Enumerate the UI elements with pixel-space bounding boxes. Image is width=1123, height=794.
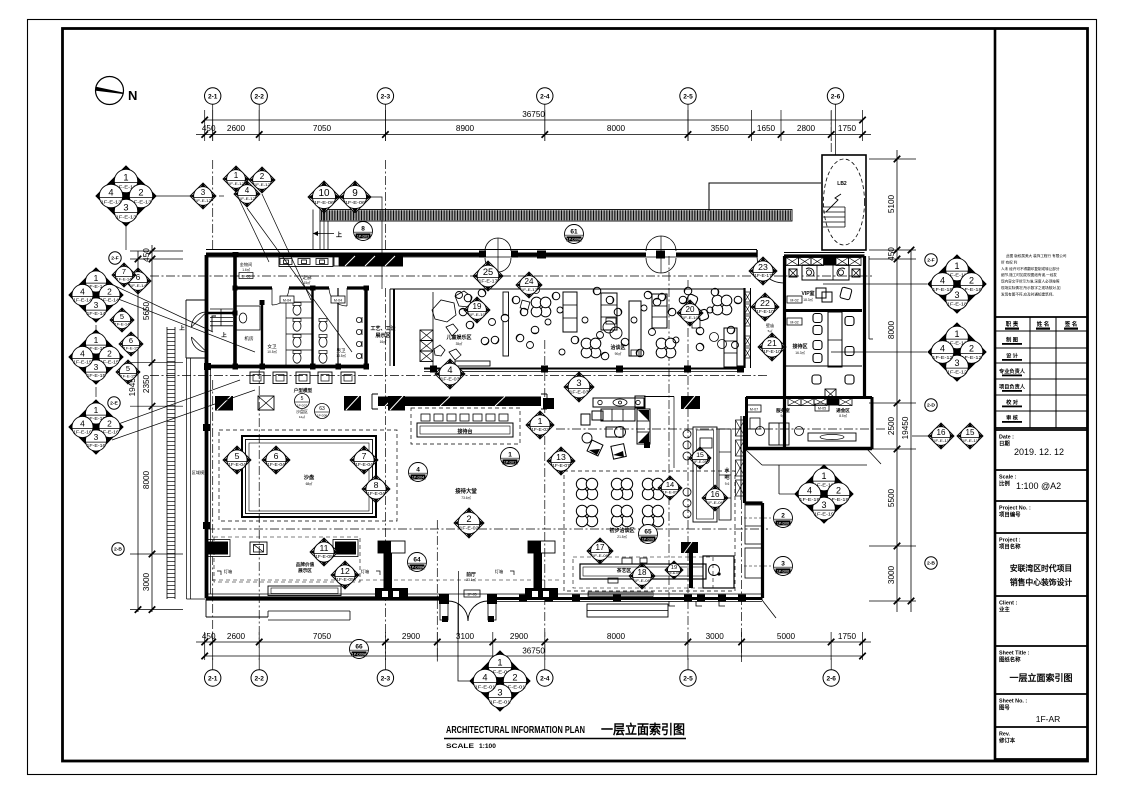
cloak counter dark <box>334 256 403 267</box>
svg-text:19: 19 <box>671 565 677 571</box>
svg-text:1F-E-13: 1F-E-13 <box>100 199 121 205</box>
svg-text:24: 24 <box>525 277 534 286</box>
toilet stalls left <box>286 301 312 303</box>
elevation marker 2 at 262,180 <box>249 167 275 193</box>
circle tag 8 <box>354 222 373 241</box>
svg-text:吧: 吧 <box>724 474 729 481</box>
right wing walls <box>746 253 872 450</box>
elevation marker 3 at 579,387 <box>564 372 594 402</box>
svg-text:5100: 5100 <box>887 194 896 213</box>
svg-text:金物间: 金物间 <box>240 261 253 268</box>
svg-text:Client :: Client : <box>999 601 1017 607</box>
svg-text:安联湾区时代项目: 安联湾区时代项目 <box>1010 563 1072 573</box>
svg-text:16.3㎡: 16.3㎡ <box>795 350 805 355</box>
elevation marker 8 at 376,489 <box>362 475 390 503</box>
svg-text:展示区: 展示区 <box>298 567 312 574</box>
svg-text:1F-E-14: 1F-E-14 <box>130 283 147 288</box>
svg-text:灯箱: 灯箱 <box>224 568 232 575</box>
svg-text:36750: 36750 <box>522 647 545 656</box>
wing x-band <box>786 258 861 266</box>
entrance pier left <box>378 541 405 553</box>
svg-text:前厅: 前厅 <box>466 571 476 578</box>
elevation marker 11 at 324,552 <box>310 538 338 566</box>
svg-text:2-4: 2-4 <box>540 675 550 682</box>
svg-text:1F-E-16: 1F-E-16 <box>87 443 107 448</box>
svg-text:1: 1 <box>123 173 128 183</box>
svg-text:此图 版权属美大 装饰工程行 有限公司: 此图 版权属美大 装饰工程行 有限公司 <box>1006 253 1067 258</box>
left grid bubbles <box>108 252 124 555</box>
svg-text:制 图: 制 图 <box>1006 336 1018 344</box>
elevation marker 23 at 763,271 <box>749 257 777 285</box>
leaders bottom <box>458 604 470 681</box>
svg-text:1F-E-02: 1F-E-02 <box>531 427 549 432</box>
svg-text:品牌价值: 品牌价值 <box>296 561 315 568</box>
svg-text:发现有图不符,应及时通知建筑师。: 发现有图不符,应及时通知建筑师。 <box>1001 291 1056 296</box>
toilet doors <box>272 288 347 306</box>
svg-text:现场实际情况 所示数字之现场核对,如: 现场实际情况 所示数字之现场核对,如 <box>1001 285 1061 290</box>
svg-text:4: 4 <box>416 466 420 473</box>
svg-text:1F-E-02: 1F-E-02 <box>459 526 479 531</box>
svg-text:VIP室: VIP室 <box>801 290 814 297</box>
svg-text:现内容文字所示为准,深度人必须按照: 现内容文字所示为准,深度人必须按照 <box>1001 279 1060 284</box>
svg-text:1: 1 <box>955 329 960 339</box>
svg-text:1:100: 1:100 <box>479 743 496 750</box>
svg-text:接待大堂: 接待大堂 <box>455 487 477 495</box>
shachanqu label <box>295 394 310 409</box>
svg-text:65: 65 <box>644 528 652 535</box>
svg-text:初步洽谈区: 初步洽谈区 <box>609 527 634 534</box>
svg-text:5: 5 <box>120 312 124 321</box>
svg-text:3: 3 <box>123 203 128 213</box>
svg-text:8000: 8000 <box>887 320 896 339</box>
svg-text:1P-D08: 1P-D08 <box>317 414 328 418</box>
svg-text:3550: 3550 <box>711 124 730 133</box>
svg-text:1P-D09A: 1P-D09A <box>567 238 582 242</box>
svg-text:1F-E-16: 1F-E-16 <box>73 430 93 435</box>
elevation marker 1 at 236,179 <box>223 166 249 192</box>
svg-text:4: 4 <box>940 276 945 286</box>
model display bar <box>372 394 554 409</box>
svg-text:2: 2 <box>107 287 112 297</box>
interior stair <box>210 309 233 331</box>
cluster bottom <box>470 651 530 711</box>
svg-text:1F-E-12: 1F-E-12 <box>239 196 255 201</box>
elevation marker 17 at 600,551 <box>587 538 613 564</box>
lounge step edge <box>424 368 744 370</box>
lounge top boundary <box>390 288 744 290</box>
elevation marker 21 at 772,347 <box>758 333 786 361</box>
tea bar <box>580 542 734 597</box>
svg-text:4: 4 <box>447 365 452 375</box>
svg-text:灯箱: 灯箱 <box>361 568 369 575</box>
svg-text:13.5㎡: 13.5㎡ <box>336 353 346 358</box>
svg-text:2500: 2500 <box>887 416 896 435</box>
svg-text:户型模型: 户型模型 <box>293 387 313 394</box>
svg-text:2-3: 2-3 <box>381 93 391 100</box>
svg-text:73.6㎡: 73.6㎡ <box>461 495 471 500</box>
cluster left-3 <box>69 400 123 454</box>
elevation marker 6 at 276,460 <box>262 446 290 474</box>
svg-text:3: 3 <box>201 188 206 197</box>
svg-text:1P-D08: 1P-D08 <box>642 538 654 542</box>
svg-text:2-2: 2-2 <box>254 675 264 682</box>
left outside wall lines <box>186 358 188 599</box>
svg-text:15: 15 <box>696 452 704 459</box>
svg-text:1F-E-09: 1F-E-09 <box>707 500 723 505</box>
svg-text:8000: 8000 <box>142 470 151 489</box>
svg-text:4: 4 <box>108 188 113 198</box>
svg-text:5650: 5650 <box>142 301 151 320</box>
svg-text:450: 450 <box>202 124 216 133</box>
oval stair <box>822 155 866 250</box>
elevation marker 24 at 529,285 <box>516 272 542 298</box>
wc small room <box>236 306 260 330</box>
svg-text:11: 11 <box>319 543 328 553</box>
svg-text:10: 10 <box>318 188 330 199</box>
svg-text:走廊: 走廊 <box>302 274 312 281</box>
elevation marker 5 at 237,460 <box>223 446 251 474</box>
svg-text:5: 5 <box>301 396 304 402</box>
svg-text:2: 2 <box>260 172 265 181</box>
svg-text:2: 2 <box>107 349 112 359</box>
terrace <box>746 450 762 465</box>
svg-text:2019. 12. 12: 2019. 12. 12 <box>1014 447 1064 457</box>
svg-text:2-E: 2-E <box>110 401 118 407</box>
svg-text:1F-E-04: 1F-E-04 <box>267 462 285 467</box>
svg-text:2-5: 2-5 <box>683 675 693 682</box>
svg-text:2900: 2900 <box>402 632 421 641</box>
svg-text:1F-E-15: 1F-E-15 <box>73 360 93 365</box>
reception desk <box>417 414 513 437</box>
canopy hatched band <box>313 183 821 250</box>
svg-text:1F-E-12: 1F-E-12 <box>932 355 953 361</box>
svg-text:1: 1 <box>497 658 502 668</box>
svg-text:1: 1 <box>234 171 239 180</box>
svg-text:1F-E-10: 1F-E-10 <box>763 349 781 354</box>
svg-text:1P-D06: 1P-D06 <box>777 522 789 526</box>
svg-text:36750: 36750 <box>522 110 545 119</box>
svg-text:1F-E-15: 1F-E-15 <box>87 373 107 378</box>
svg-text:1750: 1750 <box>838 124 857 133</box>
svg-text:上: 上 <box>336 231 342 239</box>
svg-text:3: 3 <box>497 688 502 698</box>
svg-text:1F-E-10: 1F-E-10 <box>756 309 774 314</box>
svg-text:5㎡: 5㎡ <box>768 328 773 333</box>
svg-text:7: 7 <box>362 451 367 461</box>
entrance door top-1 <box>485 238 511 272</box>
svg-text:1F-E-18: 1F-E-18 <box>932 287 953 293</box>
svg-text:M-02: M-02 <box>790 321 798 325</box>
svg-text:1F-E-05: 1F-E-05 <box>315 554 333 559</box>
svg-text:1F-AR: 1F-AR <box>1036 714 1061 724</box>
svg-text:450: 450 <box>202 632 216 641</box>
svg-text:递金区: 递金区 <box>836 407 850 414</box>
svg-text:1F-E-10: 1F-E-10 <box>682 315 699 320</box>
elevation marker 25 at 488,276 <box>473 261 503 291</box>
elevation marker 1 at 540,425 <box>526 411 554 439</box>
corridor cabinets <box>279 257 333 267</box>
pantry x-strip <box>736 416 745 500</box>
svg-text:1F-E-04: 1F-E-04 <box>367 491 385 496</box>
svg-text:9.6: 9.6 <box>725 482 730 486</box>
bottom display case <box>268 586 341 596</box>
svg-text:1.6㎡: 1.6㎡ <box>242 267 250 272</box>
elevation marker 6 at 138,281 <box>125 268 151 294</box>
right grid bubbles <box>925 254 937 569</box>
svg-text:1F-05: 1F-05 <box>242 275 251 279</box>
svg-text:8: 8 <box>361 225 365 232</box>
svg-text:2-1: 2-1 <box>208 93 218 100</box>
svg-text:1F-E-12: 1F-E-12 <box>228 181 244 186</box>
cluster right-2 <box>928 323 986 381</box>
landing rects <box>745 505 762 544</box>
svg-text:2600: 2600 <box>227 124 246 133</box>
svg-text:1: 1 <box>94 335 99 345</box>
svg-text:细节,施工时如发现图纸有误,一经发: 细节,施工时如发现图纸有误,一经发 <box>1001 272 1057 277</box>
reception desks right <box>812 312 854 399</box>
svg-text:接待区: 接待区 <box>791 343 807 350</box>
svg-text:2: 2 <box>512 673 517 683</box>
elevation marker 5 at 128,372 <box>116 360 140 384</box>
svg-text:审 核: 审 核 <box>1006 414 1019 422</box>
tea bar dashed zone <box>573 557 713 588</box>
svg-text:13: 13 <box>556 452 566 462</box>
svg-text:2: 2 <box>836 486 841 496</box>
svg-text:Scale :: Scale : <box>999 475 1017 481</box>
svg-text:66: 66 <box>355 643 363 650</box>
svg-text:1F-E-09: 1F-E-09 <box>693 460 707 464</box>
leaders right <box>823 283 927 285</box>
svg-text:1F-E-03: 1F-E-03 <box>440 377 460 382</box>
elevation marker 16 at 715,498 <box>702 485 728 511</box>
bottom wall mullions <box>519 595 527 602</box>
circle tag 65 <box>639 525 658 544</box>
elevation marker 9 at 355,197 <box>339 181 371 213</box>
svg-text:1F-E-03: 1F-E-03 <box>569 390 589 395</box>
svg-text:2-B: 2-B <box>114 547 122 553</box>
svg-text:6: 6 <box>129 336 133 345</box>
svg-text:1F-05: 1F-05 <box>467 593 476 597</box>
top wall piers <box>537 251 546 259</box>
svg-text:1: 1 <box>955 261 960 271</box>
top dimension lines <box>196 110 871 141</box>
svg-text:1P-D08A: 1P-D08A <box>410 566 425 570</box>
display row upper <box>215 396 405 411</box>
elevation marker 2 at 469,523 <box>454 508 484 538</box>
svg-text:1F-E-06: 1F-E-06 <box>314 200 335 206</box>
svg-text:3000: 3000 <box>706 632 725 641</box>
svg-text:壁庙: 壁庙 <box>766 322 774 328</box>
svg-text:上: 上 <box>221 331 227 339</box>
svg-text:LB2: LB2 <box>837 181 847 187</box>
title block notes <box>1001 253 1067 296</box>
svg-text:20: 20 <box>686 305 695 314</box>
svg-text:1650: 1650 <box>757 124 776 133</box>
cluster top-left <box>96 166 156 226</box>
svg-text:2: 2 <box>107 419 112 429</box>
svg-text:区域模型: 区域模型 <box>192 469 209 476</box>
svg-text:职 责: 职 责 <box>1006 320 1019 328</box>
svg-text:1F-E-14: 1F-E-14 <box>114 322 129 326</box>
svg-text:7: 7 <box>122 267 126 276</box>
svg-text:2: 2 <box>781 512 785 519</box>
svg-text:23.1㎡: 23.1㎡ <box>466 577 476 582</box>
svg-text:1F-E-11: 1F-E-11 <box>962 438 978 443</box>
svg-text:3: 3 <box>822 500 827 510</box>
svg-text:1F-E-14: 1F-E-14 <box>116 277 131 281</box>
svg-text:12㎡: 12㎡ <box>299 414 305 419</box>
svg-text:21: 21 <box>767 338 777 348</box>
svg-text:4: 4 <box>940 344 945 354</box>
sand table dashed zone <box>219 430 397 521</box>
sand table <box>242 436 376 517</box>
bottom exterior wall <box>206 596 444 600</box>
right dimension lines <box>869 150 916 612</box>
entrance pier right <box>528 541 555 553</box>
svg-text:Sheet Title :: Sheet Title : <box>999 651 1030 657</box>
svg-text:1F-E-17: 1F-E-17 <box>521 287 537 292</box>
svg-text:Date :: Date : <box>999 435 1014 441</box>
toilet right wall <box>364 288 367 366</box>
right dashed leaders <box>744 517 771 519</box>
elevation marker 13 at 561,461 <box>547 447 575 475</box>
svg-text:1F-E-17: 1F-E-17 <box>478 279 498 284</box>
children right boundary <box>432 292 434 366</box>
svg-text:5: 5 <box>126 364 130 373</box>
svg-text:项目编号: 项目编号 <box>999 511 1021 519</box>
svg-text:6: 6 <box>136 273 141 282</box>
svg-text:7050: 7050 <box>313 124 332 133</box>
svg-text:2800: 2800 <box>797 124 816 133</box>
svg-text:1750: 1750 <box>838 632 857 641</box>
svg-text:2: 2 <box>969 276 974 286</box>
svg-text:1F-E-06: 1F-E-06 <box>345 200 366 206</box>
lounge chairs upper <box>459 287 742 360</box>
svg-text:1: 1 <box>94 273 99 283</box>
svg-text:8900: 8900 <box>456 124 475 133</box>
svg-text:1F-E-01: 1F-E-01 <box>489 699 510 705</box>
svg-text:3: 3 <box>94 300 99 310</box>
lounge clovers upper <box>531 295 732 358</box>
wing outer glass line <box>868 256 870 339</box>
svg-text:1P-D09A: 1P-D09A <box>352 653 367 657</box>
cluster left-1 <box>69 268 123 322</box>
svg-text:3: 3 <box>955 358 960 368</box>
leader 23 <box>762 257 764 272</box>
svg-text:2: 2 <box>969 344 974 354</box>
left diamond 7 <box>112 263 136 287</box>
svg-text:450: 450 <box>142 248 151 262</box>
wall h y313 <box>206 312 235 314</box>
svg-text:1F-E-19: 1F-E-19 <box>799 497 820 503</box>
svg-text:1F-E-08: 1F-E-08 <box>592 553 609 558</box>
svg-text:茶艺区: 茶艺区 <box>616 567 632 574</box>
svg-text:项目负责人: 项目负责人 <box>999 383 1026 391</box>
svg-text:校 对: 校 对 <box>1006 398 1019 406</box>
svg-text:1F-E-04: 1F-E-04 <box>228 462 246 467</box>
svg-text:19: 19 <box>473 302 482 311</box>
svg-text:M-07: M-07 <box>750 408 758 412</box>
svg-text:3000: 3000 <box>887 565 896 584</box>
svg-text:修订本: 修订本 <box>998 737 1016 745</box>
svg-text:1F-E-15: 1F-E-15 <box>123 346 138 350</box>
svg-text:21.5㎡: 21.5㎡ <box>617 534 627 539</box>
bottom grid bubbles <box>205 658 840 686</box>
elevation marker 15 at 700,458 <box>689 447 711 469</box>
lounge dashed zone <box>564 471 735 591</box>
svg-text:2-B: 2-B <box>927 561 935 567</box>
svg-text:洽谈区: 洽谈区 <box>610 344 625 351</box>
svg-text:2-6: 2-6 <box>831 93 841 100</box>
svg-text:灯箱: 灯箱 <box>495 568 503 575</box>
svg-text:儿童娱乐区: 儿童娱乐区 <box>445 334 471 341</box>
svg-text:1F-E-10: 1F-E-10 <box>469 312 486 317</box>
svg-text:3: 3 <box>94 432 99 442</box>
block b x-band <box>788 399 852 406</box>
svg-text:一层立面索引图: 一层立面索引图 <box>1009 672 1072 683</box>
svg-text:68㎡: 68㎡ <box>306 481 314 486</box>
svg-text:2-4: 2-4 <box>540 93 550 100</box>
bottom dimension lines <box>196 632 871 660</box>
small diamond 19b <box>665 561 683 579</box>
svg-text:3: 3 <box>94 362 99 372</box>
leaders topleft <box>156 195 203 197</box>
svg-text:2-6: 2-6 <box>826 675 836 682</box>
cluster bottom-right <box>795 465 853 523</box>
svg-text:姓 名: 姓 名 <box>1036 320 1050 328</box>
vip interior wall <box>784 309 862 312</box>
svg-text:1F-E-01: 1F-E-01 <box>474 684 495 690</box>
elevation marker 20 at 690,313 <box>677 300 703 326</box>
svg-text:5000: 5000 <box>777 632 796 641</box>
svg-text:女卫: 女卫 <box>267 343 277 350</box>
svg-text:8.5㎡: 8.5㎡ <box>839 413 847 418</box>
svg-text:14: 14 <box>666 480 674 489</box>
initial lounge clovers <box>576 478 663 526</box>
svg-text:61: 61 <box>570 228 578 235</box>
title block divider <box>994 29 997 762</box>
circle tag 66 <box>350 640 369 659</box>
svg-text:人未 经许可不得翻印复制或转让部分: 人未 经许可不得翻印复制或转让部分 <box>1001 266 1060 271</box>
svg-text:工艺、工法: 工艺、工法 <box>370 325 395 332</box>
svg-text:7050: 7050 <box>313 632 332 641</box>
left wall nubs <box>203 424 210 431</box>
center sofa group <box>581 396 700 468</box>
svg-text:1P-D06: 1P-D06 <box>777 570 789 574</box>
svg-text:1F-E-14: 1F-E-14 <box>73 298 93 303</box>
svg-text:1F-E-14: 1F-E-14 <box>87 311 107 316</box>
svg-text:1F-E-08: 1F-E-08 <box>668 571 680 575</box>
svg-text:1: 1 <box>822 471 827 481</box>
children display wall <box>503 292 509 356</box>
elevation marker 19 at 477,310 <box>464 297 490 323</box>
svg-text:3000: 3000 <box>142 572 151 591</box>
elevation marker 18 at 642,576 <box>629 563 655 589</box>
svg-text:一层立面索引图: 一层立面索引图 <box>601 722 685 737</box>
svg-text:1F-E-12: 1F-E-12 <box>947 370 968 376</box>
svg-text:2350: 2350 <box>142 374 151 393</box>
svg-text:6: 6 <box>274 451 279 461</box>
svg-text:ARCHITECTURAL INFORMATION PLAN: ARCHITECTURAL INFORMATION PLAN <box>446 724 585 736</box>
svg-text:5500: 5500 <box>887 488 896 507</box>
wall v x235 <box>233 255 237 366</box>
signature table <box>995 317 1088 428</box>
svg-text:日期: 日期 <box>999 440 1010 448</box>
elevation marker 5 at 122,320 <box>110 308 134 332</box>
steps bottom-mid <box>587 604 668 617</box>
display row lower <box>206 540 358 557</box>
svg-text:SCALE: SCALE <box>446 743 475 750</box>
